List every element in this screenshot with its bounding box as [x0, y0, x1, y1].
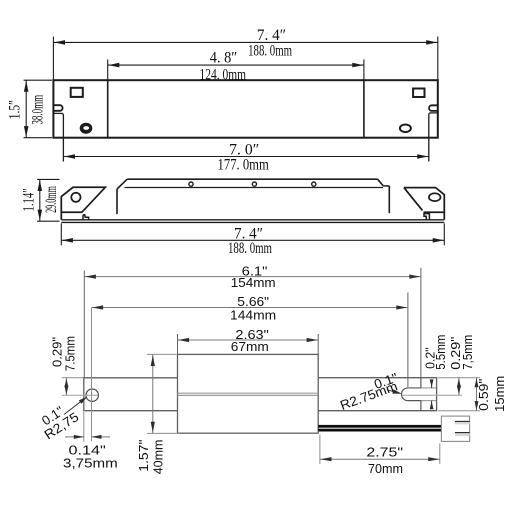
- view3 left flange outline: [84, 378, 178, 411]
- view2 right foot tab: [424, 214, 429, 220]
- view2 left tab hole: [71, 193, 80, 202]
- view2 flange hole 3: [312, 182, 316, 186]
- dim 0.14in dimension line: [65, 436, 84, 438]
- view3 left flange hole: [86, 389, 98, 401]
- svg-text:188. 0mm: 188. 0mm: [228, 240, 272, 257]
- view3 hole centerline: [62, 394, 99, 396]
- dim view2 7.4in/188mm extension lines: [60, 223, 62, 245]
- dim 2.63in/67mm dimension line: [178, 339, 319, 341]
- svg-text:70mm: 70mm: [368, 461, 403, 476]
- svg-text:144mm: 144mm: [230, 308, 276, 323]
- view3 right flange outline: [318, 378, 436, 411]
- dim left 0.29in/7.5mm dimension line: [65, 378, 67, 395]
- dim 6.1in/154mm dimension line: [84, 276, 421, 278]
- dim 1.14in/29mm dimension line: [39, 179, 41, 221]
- view2 left mounting tab: [61, 187, 105, 219]
- dim 2.63in/67mm extension lines: [177, 334, 179, 354]
- svg-text:1.5″: 1.5″: [7, 100, 24, 119]
- view2 right fold line: [388, 186, 390, 213]
- view1 right oval hole: [400, 125, 411, 133]
- view2 right chamfer line: [378, 179, 384, 186]
- dim right 0.29in dimension line: [458, 378, 460, 396]
- view2 left chamfer line: [117, 179, 127, 189]
- svg-text:38.0mm: 38.0mm: [29, 95, 46, 125]
- svg-text:5.5mm: 5.5mm: [433, 335, 448, 370]
- dim 7in/177mm dimension line: [63, 156, 428, 158]
- view2 right mounting tab: [404, 188, 444, 220]
- connector slot 1: [455, 422, 470, 425]
- connector slot 2: [455, 433, 470, 436]
- view2 right tab hole: [429, 193, 441, 201]
- dim 4.8in/124mm extension lines: [107, 60, 109, 81]
- svg-text:0.59": 0.59": [476, 378, 491, 411]
- view2 flange hole 1: [189, 182, 193, 186]
- view2 back flange inner edge: [125, 187, 384, 189]
- svg-text:154mm: 154mm: [231, 275, 276, 290]
- dim 1.5in/38mm extension lines: [24, 79, 52, 81]
- svg-text:29.0mm: 29.0mm: [43, 186, 60, 213]
- view1 right rectangular knockout: [413, 89, 424, 98]
- dim 0.59in dimension line: [476, 378, 478, 411]
- view3 keyhole slot: [401, 378, 420, 411]
- dim 0.2in arrows: [431, 380, 433, 388]
- wire upper: [318, 425, 441, 428]
- leader right R2.75 line: [387, 390, 400, 394]
- dim 5.66in/144mm dimension line: [92, 307, 408, 309]
- view3 hole vertical centerline: [91, 308, 93, 442]
- view1 left rectangular knockout: [71, 88, 83, 97]
- svg-text:7,5mm: 7,5mm: [460, 335, 475, 370]
- svg-text:7. 4″: 7. 4″: [257, 27, 286, 44]
- svg-text:15mm: 15mm: [492, 376, 507, 412]
- svg-text:2.75": 2.75": [366, 445, 403, 460]
- svg-text:124. 0mm: 124. 0mm: [200, 67, 247, 84]
- dim view2 7.4in/188mm dimension line: [61, 239, 444, 241]
- dim left 0.29in/7.5mm extension line: [62, 377, 83, 379]
- view2 left foot tab: [83, 215, 89, 220]
- dim right 0.29in extension line: [438, 377, 480, 379]
- view2 chassis bottom edge: [61, 219, 444, 221]
- dim 1.57in/40mm dimension line: [152, 354, 154, 433]
- view2 back flange outer edge: [127, 178, 377, 180]
- svg-text:177. 0mm: 177. 0mm: [218, 156, 270, 173]
- dim 2.75in/70mm dimension line: [320, 458, 440, 460]
- svg-text:1.14″: 1.14″: [20, 188, 37, 211]
- dim 1.14in/29mm extension lines: [37, 178, 59, 180]
- view3 slot centerline: [402, 394, 462, 396]
- view1 internal right edge line: [363, 80, 365, 138]
- view1 case outline (front view): [53, 80, 437, 138]
- view1 right detent slot: [429, 105, 438, 111]
- dim 7.4in/188mm extension lines: [52, 37, 54, 80]
- svg-text:40mm: 40mm: [151, 439, 166, 474]
- view2 flange hole 2: [252, 182, 256, 186]
- view3 driver body outline: [178, 354, 319, 433]
- svg-text:4. 8″: 4. 8″: [210, 49, 237, 66]
- dim 1.57in/40mm extension lines: [147, 353, 177, 355]
- view1 left oval hole (rivet): [80, 123, 93, 134]
- wire lower: [318, 429, 441, 432]
- svg-text:7.5mm: 7.5mm: [63, 336, 78, 371]
- view1 internal left edge line: [107, 80, 109, 138]
- view1 left detent slot: [53, 105, 62, 111]
- svg-text:3,75mm: 3,75mm: [63, 455, 118, 470]
- svg-text:188. 0mm: 188. 0mm: [248, 42, 292, 59]
- dim 0.59in extension line: [438, 410, 480, 412]
- dim 6.1in/154mm extension lines: [83, 271, 85, 378]
- svg-text:1.57": 1.57": [136, 439, 151, 472]
- dim 0.14in extension lines: [83, 412, 85, 442]
- dim 4.8in/124mm dimension line: [108, 64, 364, 66]
- dim 5.66in/144mm extension line right: [407, 293, 409, 388]
- dim 0.2in extension segments: [421, 387, 436, 389]
- dim 7.4in/188mm dimension line: [53, 41, 437, 43]
- leader left R2.75 line: [64, 398, 86, 415]
- dim 7in/177mm extension lines: [53, 113, 63, 161]
- dim 2.75in/70mm extension lines: [319, 435, 321, 465]
- connector housing: [441, 416, 469, 441]
- view3 body seam lines: [178, 392, 319, 394]
- svg-text:67mm: 67mm: [231, 339, 269, 354]
- dim 1.5in/38mm dimension line: [25, 80, 27, 138]
- view2 left fold line: [116, 189, 118, 214]
